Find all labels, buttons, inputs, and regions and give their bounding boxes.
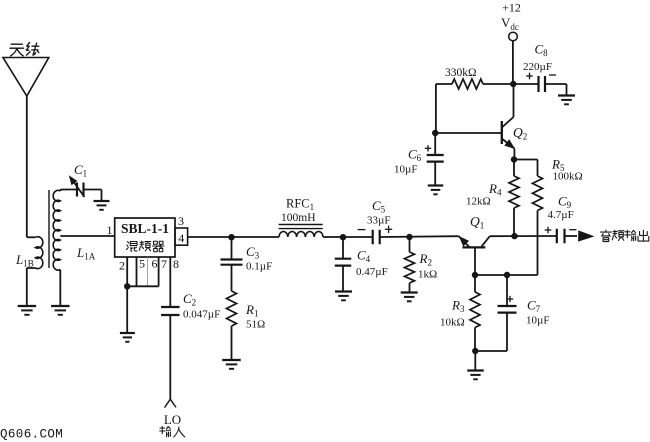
svg-text:100kΩ: 100kΩ xyxy=(553,171,583,183)
svg-text:+12: +12 xyxy=(502,0,521,14)
svg-text:2: 2 xyxy=(119,259,125,273)
svg-text:10kΩ: 10kΩ xyxy=(440,317,465,329)
svg-text:8: 8 xyxy=(173,257,179,271)
svg-text:12kΩ: 12kΩ xyxy=(466,196,491,208)
svg-text:Q606.COM: Q606.COM xyxy=(0,428,63,442)
svg-text:1: 1 xyxy=(107,223,113,237)
svg-text:1kΩ: 1kΩ xyxy=(418,269,437,281)
svg-text:3: 3 xyxy=(178,214,184,228)
svg-text:33µF: 33µF xyxy=(367,215,390,227)
svg-text:10µF: 10µF xyxy=(526,315,549,327)
svg-text:10µF: 10µF xyxy=(394,164,417,176)
svg-text:LO: LO xyxy=(164,412,181,427)
svg-text:6: 6 xyxy=(152,257,158,271)
svg-text:4: 4 xyxy=(178,231,184,245)
svg-text:4.7µF: 4.7µF xyxy=(548,209,574,221)
svg-text:SBL-1-1: SBL-1-1 xyxy=(121,221,169,236)
svg-text:220µF: 220µF xyxy=(523,61,552,73)
svg-text:330kΩ: 330kΩ xyxy=(445,67,477,79)
svg-text:51Ω: 51Ω xyxy=(246,319,265,331)
svg-text:100mH: 100mH xyxy=(281,212,316,224)
svg-text:5: 5 xyxy=(139,257,145,271)
svg-text:7: 7 xyxy=(161,257,167,271)
svg-text:0.047µF: 0.047µF xyxy=(183,309,220,321)
svg-text:0.47µF: 0.47µF xyxy=(356,266,388,278)
svg-text:0.1µF: 0.1µF xyxy=(246,261,272,273)
